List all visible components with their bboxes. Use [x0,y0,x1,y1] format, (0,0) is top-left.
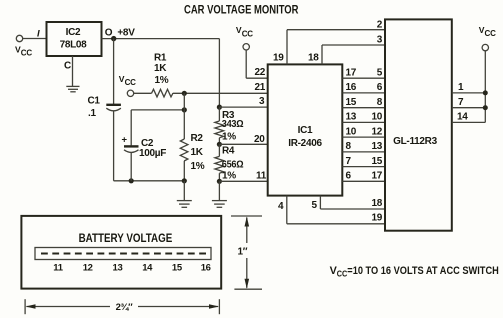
svg-text:CC: CC [242,29,254,38]
svg-text:11: 11 [53,263,63,274]
svg-text:1K: 1K [154,63,167,74]
svg-text:6: 6 [346,171,352,182]
terminal VCC (input, left) [15,35,32,57]
wire IC1 pin 7 to GL pin 15 [342,156,385,167]
node VCC/pin7 [483,105,488,110]
svg-text:15: 15 [371,156,382,167]
svg-text:C: C [64,61,71,72]
wire IC1 pin 10 to GL pin 12 [342,127,385,138]
svg-text:CAR VOLTAGE MONITOR: CAR VOLTAGE MONITOR [184,2,299,16]
display driver GL-112R3 [385,19,452,230]
svg-text:2: 2 [377,20,383,31]
svg-text:C1: C1 [88,96,101,107]
svg-text:21: 21 [255,82,266,93]
svg-text:18: 18 [371,198,382,209]
terminal VCC (R1 input) [119,74,136,97]
capacitor C2 100uF [122,110,167,181]
wire ground rail bottom [114,180,185,182]
dimension 1 inch vertical [231,216,262,289]
svg-text:343Ω: 343Ω [222,119,244,130]
svg-text:1: 1 [458,82,464,93]
node C2 bottom [129,178,134,183]
node R2 bottom [182,178,187,183]
svg-text:13: 13 [371,141,382,152]
svg-text:1%: 1% [222,171,236,182]
wire pin 22 [246,50,268,78]
svg-text:R4: R4 [222,146,235,157]
svg-text:15: 15 [346,97,357,108]
svg-text:CC: CC [125,78,137,87]
node VCC/pin1 [483,90,488,95]
wire pin 3 [219,96,267,107]
wire +8V rail vertical down to R3 [218,39,220,108]
wire pin 11 [219,171,267,182]
wire C2 top to R2 [131,109,184,111]
wire IC1 pin 13 to GL pin 10 [342,112,385,123]
svg-text:R2: R2 [191,133,204,144]
svg-text:+: + [122,135,128,146]
ground under R4 [212,181,227,207]
wire IC1 pin 5 to GL pin 18 [312,196,386,211]
svg-text:18: 18 [308,53,319,64]
svg-text:VCC=10 TO 16 VOLTS AT ACC SWIT: VCC=10 TO 16 VOLTS AT ACC SWITCH [330,265,499,279]
wire IC2 pin C down [64,56,73,86]
svg-text:IR-2406: IR-2406 [288,138,322,149]
svg-text:3: 3 [259,96,265,107]
svg-text:656Ω: 656Ω [222,160,244,171]
wire IC1 pin 8 to GL pin 13 [342,141,385,152]
wire IC1 pin 19 to GL pin 2 [273,20,385,65]
resistor R3 343ohm 1% [215,107,244,144]
svg-text:16: 16 [201,263,211,274]
wire IC1 pin 17 to GL pin 5 [342,68,385,79]
svg-text:1K: 1K [191,147,204,158]
wire VCC right vertical [484,51,486,123]
node R3/R4 junction [217,142,222,147]
svg-text:5: 5 [312,200,318,211]
svg-text:17: 17 [346,68,357,79]
svg-text:15: 15 [172,263,183,274]
svg-text:22: 22 [255,67,266,78]
svg-text:19: 19 [371,213,382,224]
svg-text:7: 7 [346,156,352,167]
svg-text:8: 8 [377,97,383,108]
resistor R1 1K 1% [133,53,267,97]
svg-text:11: 11 [256,171,267,182]
svg-text:CC: CC [485,29,497,38]
svg-text:1%: 1% [191,161,205,172]
wire IC1 pin 15 to GL pin 8 [342,97,385,108]
svg-text:IC1: IC1 [298,125,313,136]
svg-text:IC2: IC2 [66,27,81,38]
wire VCC terminal to IC2 pin I [23,38,47,40]
svg-text:10: 10 [371,112,382,123]
IC IC1 IR-2406 [268,64,343,195]
resistor R2 1K 1% [180,93,204,181]
node C2/R2 junction [182,107,187,112]
wire pin 20 [219,134,267,145]
svg-text:78L08: 78L08 [60,40,88,51]
svg-text:100µF: 100µF [139,148,166,159]
wire GL pin 7 [452,97,486,108]
svg-text:6: 6 [377,82,383,93]
node R3 top junction [217,105,222,110]
capacitor C1 [88,39,121,181]
svg-text:3: 3 [377,35,383,46]
svg-text:1″: 1″ [238,247,248,258]
battery voltage display box [21,216,221,289]
terminal VCC (right) [479,25,496,51]
svg-text:13: 13 [346,112,357,123]
wire IC1 pin 4 to GL pin 19 [278,196,385,224]
svg-text:16: 16 [346,82,357,93]
ground under IC2 [66,86,79,91]
wire IC1 pin 18 to GL pin 3 [308,35,385,65]
note VCC = 10 TO 16 VOLTS AT ACC SWITCH [330,265,499,279]
svg-text:O: O [105,27,113,38]
svg-text:12: 12 [83,263,93,274]
svg-text:GL-112R3: GL-112R3 [393,136,437,147]
svg-text:5: 5 [377,68,383,79]
regulator IC2 78L08 [47,22,102,56]
svg-text:2¾″: 2¾″ [116,302,134,313]
node R1/R2/pin21 junction [182,91,187,96]
wire GL pin 1 [452,82,486,93]
svg-text:8: 8 [346,141,352,152]
svg-text:1%: 1% [155,75,169,86]
node R4 bottom junction [217,179,222,184]
svg-text:BATTERY VOLTAGE: BATTERY VOLTAGE [79,231,173,245]
terminal VCC (pin 22) [236,25,253,50]
dimension 2-3/4 inch horizontal [25,299,219,314]
svg-text:12: 12 [371,127,382,138]
svg-text:.1: .1 [88,108,96,119]
wire IC1 pin 16 to GL pin 6 [342,82,385,93]
svg-text:13: 13 [113,263,123,274]
ground under R2 [177,181,192,208]
svg-text:7: 7 [458,97,464,108]
svg-text:19: 19 [273,53,284,64]
svg-text:CC: CC [21,49,33,58]
svg-text:17: 17 [371,171,382,182]
svg-text:10: 10 [346,127,357,138]
svg-text:+8V: +8V [117,27,135,38]
wire +8V rail horizontal [102,38,220,40]
svg-text:4: 4 [278,201,284,212]
svg-text:20: 20 [254,134,265,145]
resistor R4 656ohm 1% [215,144,244,181]
node +8V junction [111,36,116,41]
svg-text:14: 14 [142,263,153,274]
wire IC1 pin 6 to GL pin 17 [342,171,385,182]
svg-text:14: 14 [457,112,468,123]
svg-text:R1: R1 [154,53,167,64]
svg-text:1%: 1% [222,132,236,143]
wire GL pin 14 [452,112,486,123]
